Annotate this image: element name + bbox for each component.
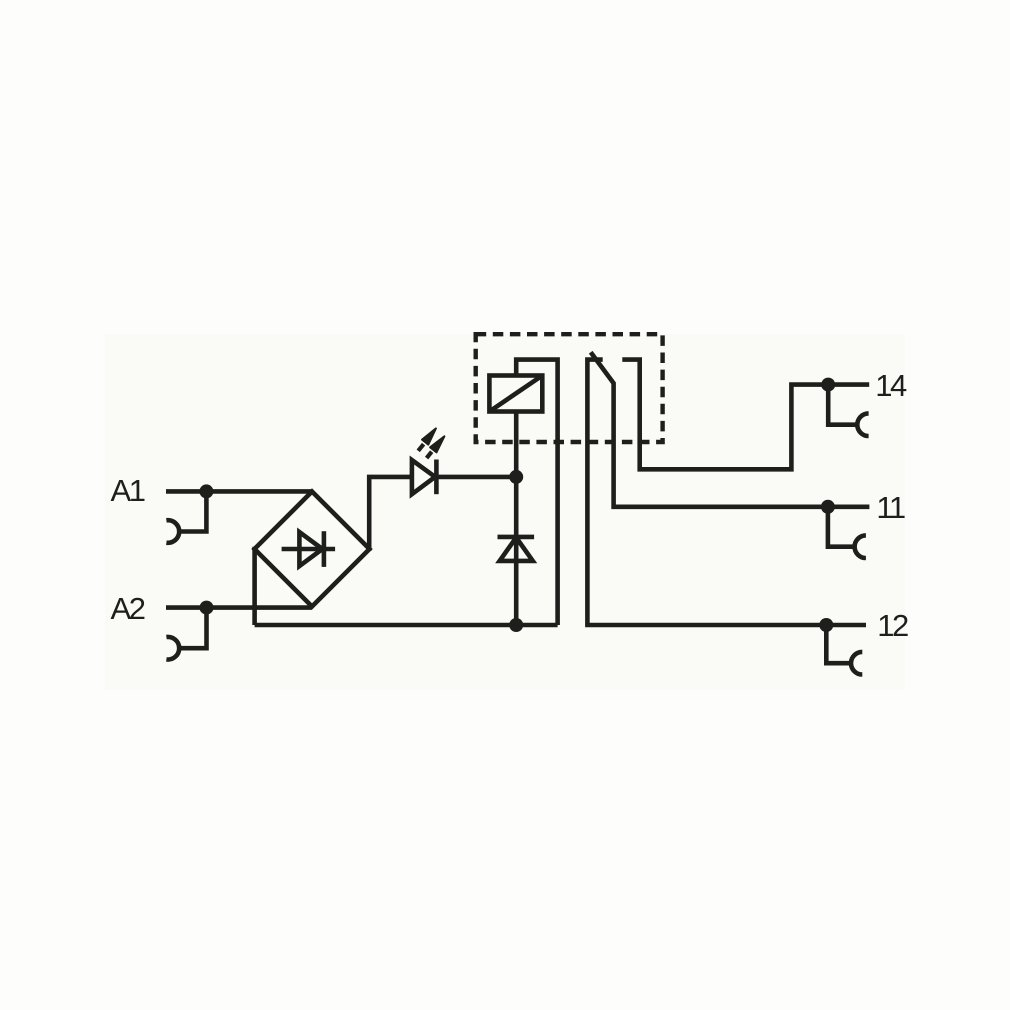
node bottom rail junction: [509, 618, 523, 632]
node terminal 14: [821, 378, 835, 392]
contact pole wire to terminal 12: [587, 360, 866, 625]
wire coil bottom lead down through freewheel diode to bottom rail: [514, 412, 519, 626]
drawing area tint: [105, 334, 905, 690]
wire coil top loop to bottom rail: [516, 360, 557, 625]
wire A1 clamp drop: [179, 491, 207, 531]
clamp contact A1: [166, 520, 179, 543]
bridge rectifier body: [255, 492, 370, 607]
wire A2 clamp drop: [179, 608, 207, 649]
svg-text:11: 11: [876, 490, 904, 525]
node LED/coil junction: [509, 470, 523, 484]
svg-text:A2: A2: [111, 591, 145, 626]
junction A1: [199, 484, 213, 498]
bridge rectifier diode symbol: [282, 531, 336, 567]
wire bottom rail: [255, 623, 558, 628]
LED emission arrow 1: [418, 428, 436, 450]
node terminal 11: [821, 500, 835, 514]
svg-text:14: 14: [875, 368, 907, 403]
contact NO wire to terminal 14: [622, 360, 869, 470]
relay coil K1: [489, 376, 542, 412]
wire 12 clamp drop: [826, 625, 850, 663]
node terminal 12: [819, 618, 833, 632]
clamp contact 14: [857, 413, 868, 436]
relay K1 dashed boundary: [476, 334, 663, 442]
contact blade to terminal 11: [591, 352, 870, 507]
wire bridge right corner to LED anode: [369, 477, 412, 551]
wire A1 lead: [166, 489, 311, 494]
svg-text:A1: A1: [111, 473, 145, 508]
clamp contact A2: [166, 637, 179, 660]
LED emission arrow 2: [427, 436, 445, 458]
clamp contact 11: [855, 535, 866, 558]
wire A2 lead: [166, 605, 312, 610]
svg-text:12: 12: [877, 608, 908, 643]
LED D2: [412, 460, 437, 495]
junction A2: [200, 601, 214, 615]
wire 14 clamp drop: [828, 385, 857, 425]
wire bridge left corner to bottom rail: [252, 547, 257, 625]
wire 11 clamp drop: [828, 507, 854, 547]
wire LED cathode to node: [436, 475, 516, 480]
clamp contact 12: [851, 652, 862, 675]
freewheeling diode D3: [498, 537, 535, 561]
